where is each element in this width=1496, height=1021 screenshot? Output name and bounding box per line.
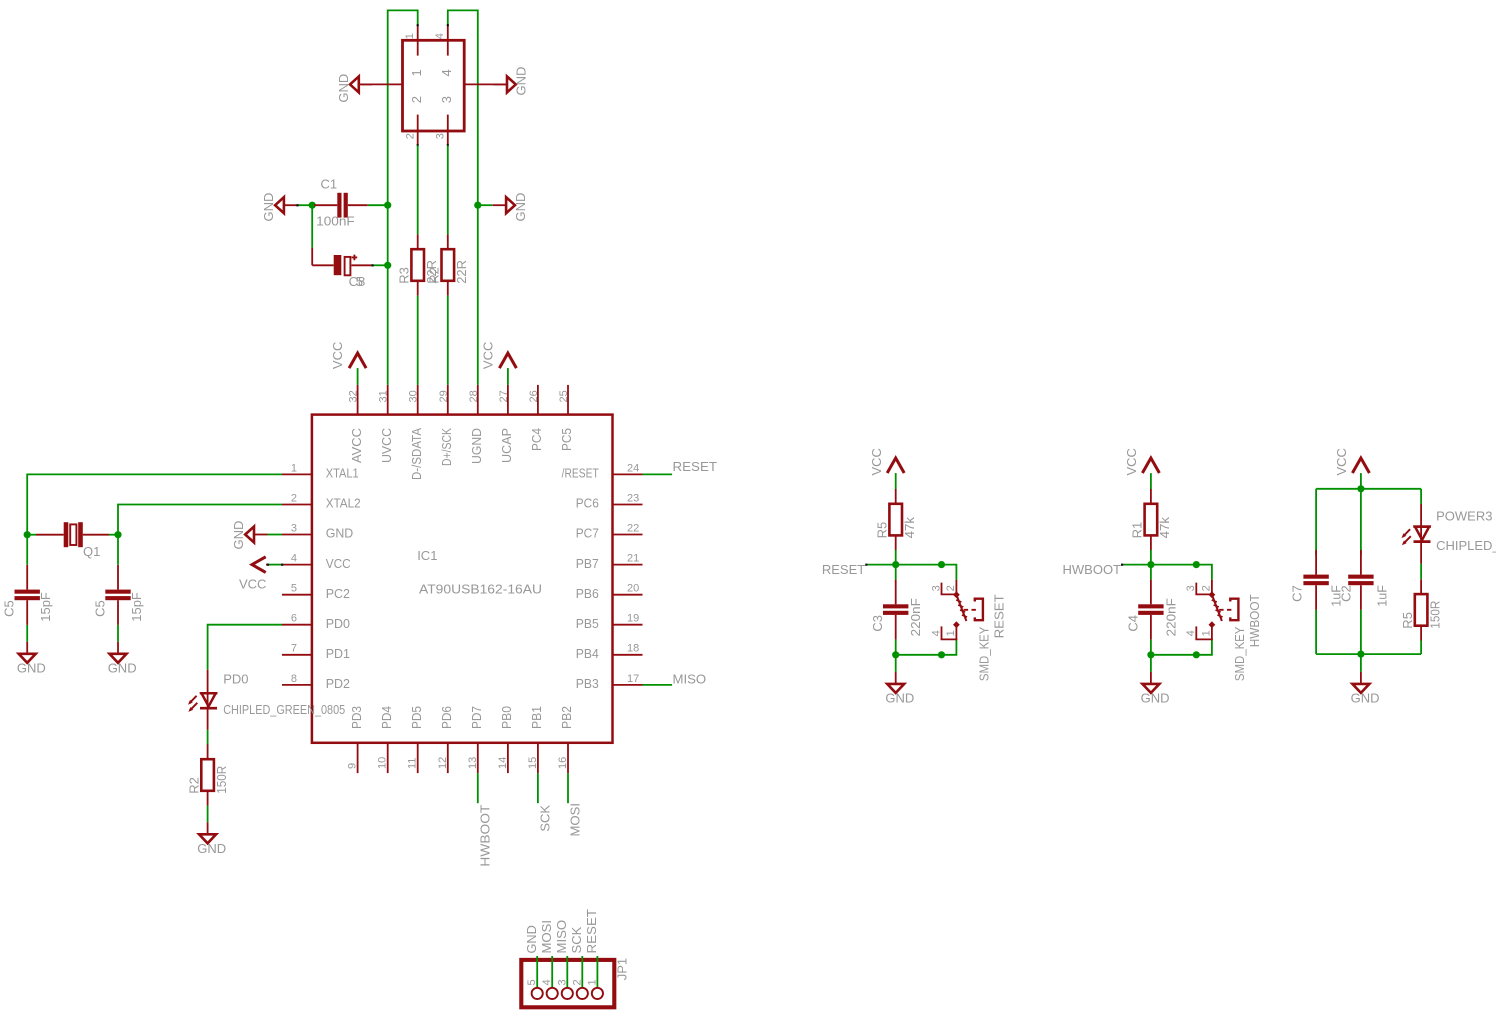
svg-text:GND: GND — [1351, 690, 1380, 705]
jp1 pin 1 wire net RESET — [596, 956, 598, 988]
junction node VCC power — [1357, 485, 1364, 492]
svg-text:4: 4 — [434, 33, 446, 39]
junction node at cap bottom — [892, 651, 899, 658]
ic pin 11 PD5 — [417, 743, 419, 773]
ic pin 13 PD7 — [477, 743, 479, 773]
svg-text:SCK: SCK — [569, 926, 584, 953]
wire net HWBOOT — [1122, 564, 1151, 566]
svg-text:UCAP: UCAP — [499, 428, 514, 463]
wire R5 to bottom rail — [1420, 641, 1422, 655]
led emission arrows — [189, 696, 197, 711]
wire to switch top — [896, 564, 942, 566]
svg-text:24: 24 — [627, 462, 639, 474]
ic IC1 body — [312, 415, 613, 743]
ic pin 31 UVCC — [387, 385, 389, 415]
usb pin 2 — [417, 115, 419, 146]
svg-text:PD4: PD4 — [379, 706, 394, 729]
svg-text:GND: GND — [1141, 690, 1170, 705]
resistor R5 150R power — [1420, 579, 1422, 594]
svg-text:R3: R3 — [396, 267, 411, 284]
svg-text:GND: GND — [885, 690, 914, 705]
svg-text:C1: C1 — [321, 177, 338, 192]
svg-text:AT90USB162-16AU: AT90USB162-16AU — [419, 581, 542, 596]
resistor R2 150R — [207, 744, 209, 759]
wire bottom to switch — [896, 654, 942, 656]
wire cap bottom to row — [1150, 640, 1152, 655]
ic pin 30 D-/SDATA — [417, 385, 419, 415]
pin connection dots — [372, 264, 374, 266]
ground symbol GND below cap — [895, 672, 897, 684]
junction node crystal left — [24, 531, 31, 538]
svg-text:15pF: 15pF — [129, 592, 144, 622]
svg-text:RESET: RESET — [991, 594, 1006, 638]
wire power top rail — [1316, 488, 1421, 490]
svg-text:10: 10 — [377, 757, 389, 769]
svg-text:PD0: PD0 — [223, 672, 248, 687]
jp1 pin 4 wire net MOSI — [551, 956, 553, 988]
wire cap bottom to row — [895, 640, 897, 655]
svg-text:GND: GND — [326, 526, 354, 541]
svg-text:PC4: PC4 — [529, 428, 544, 451]
switch contacts — [1209, 591, 1216, 598]
ic pin 26 PC4 — [537, 385, 539, 415]
svg-text:25: 25 — [558, 390, 570, 402]
svg-text:PB7: PB7 — [576, 556, 599, 571]
svg-text:VCC: VCC — [481, 342, 496, 369]
switch SMD_KEY — [1211, 580, 1213, 595]
ic pin 18 PB4 — [613, 654, 643, 656]
crystal Q1 — [27, 534, 36, 536]
svg-text:SMD_KEY: SMD_KEY — [1232, 626, 1247, 681]
ic pin 15 PB1 — [537, 743, 539, 773]
svg-text:17: 17 — [627, 673, 639, 685]
junction node switch bottom — [938, 651, 945, 658]
svg-text:150R: 150R — [214, 766, 229, 794]
jp1 pin circle 2 — [577, 988, 588, 999]
svg-text:Q1: Q1 — [83, 544, 100, 559]
svg-text:47k: 47k — [1157, 516, 1172, 538]
svg-text:3: 3 — [1185, 585, 1197, 591]
resistor R2 — [447, 234, 449, 249]
junction node switch top — [938, 561, 945, 568]
svg-text:GND: GND — [513, 67, 528, 96]
ic pin 24 /RESET — [613, 473, 643, 475]
svg-text:R2: R2 — [186, 777, 201, 794]
ic pin 28 UGND — [477, 385, 479, 415]
svg-text:3: 3 — [291, 522, 297, 534]
svg-text:CHIPLED_GREEN_0805: CHIPLED_GREEN_0805 — [1436, 538, 1496, 553]
svg-text:UGND: UGND — [469, 428, 484, 464]
svg-text:XTAL1: XTAL1 — [326, 466, 359, 481]
wire down to C7 — [1315, 489, 1317, 555]
wire to power ground — [1360, 654, 1362, 672]
svg-text:PD7: PD7 — [469, 706, 484, 729]
svg-text:SMD_KEY: SMD_KEY — [977, 626, 992, 681]
svg-text:1: 1 — [409, 69, 424, 76]
svg-text:MISO: MISO — [673, 672, 707, 687]
svg-text:GND: GND — [231, 521, 246, 550]
svg-text:GND: GND — [17, 660, 46, 675]
svg-text:4: 4 — [291, 553, 297, 565]
wire USB pin3 to R2 — [447, 145, 449, 234]
svg-text:PC2: PC2 — [326, 586, 350, 601]
svg-text:JP1: JP1 — [615, 958, 630, 980]
svg-text:4: 4 — [930, 630, 942, 636]
svg-text:29: 29 — [438, 390, 450, 402]
svg-text:1uF: 1uF — [1374, 585, 1389, 607]
svg-text:GND: GND — [261, 193, 276, 222]
svg-text:15: 15 — [527, 757, 539, 769]
svg-text:14: 14 — [497, 757, 509, 769]
wire net MISO at IC pin 17 — [643, 684, 673, 686]
svg-text:HWBOOT: HWBOOT — [477, 805, 492, 867]
ground symbol GND at IC pin 3 — [245, 527, 254, 543]
wire bottom to switch — [1151, 654, 1196, 656]
svg-text:R2: R2 — [427, 267, 442, 284]
wire to ground — [895, 655, 897, 672]
svg-text:PD1: PD1 — [326, 646, 350, 661]
svg-text:R1: R1 — [1130, 522, 1145, 539]
wire PD0 to LED — [208, 625, 282, 670]
svg-text:D+/SCK: D+/SCK — [439, 428, 454, 466]
svg-text:12: 12 — [437, 757, 449, 769]
svg-text:26: 26 — [528, 390, 540, 402]
supply symbol VCC at IC pin 32 — [349, 353, 366, 368]
switch button bracket — [1230, 599, 1238, 621]
svg-text:PC6: PC6 — [576, 496, 599, 511]
svg-text:27: 27 — [498, 390, 510, 402]
svg-text:2: 2 — [291, 492, 297, 504]
wire net SCK at IC pin 15 — [537, 773, 539, 803]
svg-text:6: 6 — [291, 613, 297, 625]
wire XTAL2 to crystal — [118, 505, 282, 535]
svg-text:2: 2 — [1201, 585, 1213, 591]
ground symbol GND right of UGND rail — [506, 197, 515, 213]
svg-text:220nF: 220nF — [1163, 598, 1178, 636]
wire net RESET at IC pin 24 — [643, 473, 673, 475]
ic pin 8 PD2 — [282, 684, 312, 686]
switch SMD_KEY — [955, 580, 957, 595]
junction node at C1 left — [309, 202, 316, 209]
wire UVCC rail from USB pin 1 — [388, 10, 418, 385]
wire UGND rail to GND arrow — [478, 204, 493, 206]
svg-text:VCC: VCC — [330, 342, 345, 369]
jp1 pin 5 wire net GND — [536, 956, 538, 988]
ic pin 4 VCC — [282, 564, 312, 566]
svg-text:21: 21 — [627, 553, 639, 565]
ground symbol GND right of USB — [507, 76, 516, 92]
ground symbol GND below R2 — [207, 822, 209, 834]
junction node at cap bottom — [1147, 651, 1154, 658]
led emission arrows power — [1403, 529, 1411, 544]
ic pin 20 PB6 — [613, 594, 643, 596]
svg-text:13: 13 — [467, 757, 479, 769]
wire C2 to bottom rail — [1360, 610, 1362, 654]
ground symbol GND left of USB — [350, 76, 359, 92]
ic pin 17 PB3 — [613, 684, 643, 686]
svg-text:18: 18 — [627, 643, 639, 655]
supply symbol VCC above R1 — [1142, 458, 1159, 473]
wire R1 to net row — [1150, 550, 1152, 565]
wire down to power LED — [1420, 489, 1422, 504]
ic pin 6 PD0 — [282, 624, 312, 626]
switch contacts — [953, 591, 960, 598]
svg-text:4: 4 — [541, 979, 553, 985]
switch actuator dashes — [964, 609, 976, 611]
capacitor C3 220nF — [895, 565, 897, 580]
svg-text:VCC: VCC — [1124, 448, 1139, 475]
supply symbol VCC at IC pin 4 — [252, 557, 266, 573]
switch actuator dashes — [1219, 609, 1231, 611]
ic pin 25 PC5 — [567, 385, 569, 415]
ic pin 21 PB7 — [613, 564, 643, 566]
wire net HWBOOT at IC pin 13 — [477, 773, 479, 803]
svg-text:PB5: PB5 — [576, 616, 599, 631]
junction node power bottom — [1357, 651, 1364, 658]
wire C7 to bottom rail — [1315, 610, 1317, 654]
supply symbol VCC above R5 — [887, 458, 904, 473]
switch button bracket — [975, 599, 983, 621]
svg-text:28: 28 — [468, 390, 480, 402]
junction node switch bottom — [1193, 651, 1200, 658]
capacitor C5 left 15pF — [26, 565, 28, 590]
svg-text:IC1: IC1 — [417, 548, 437, 563]
jp1 pin circle 3 — [562, 988, 573, 999]
jp1 pin 2 wire net SCK — [581, 956, 583, 988]
supply symbol VCC power — [1352, 458, 1369, 473]
svg-text:1: 1 — [1201, 630, 1213, 636]
svg-text:VCC: VCC — [869, 448, 884, 475]
junction node switch top — [1193, 561, 1200, 568]
svg-text:HWBOOT: HWBOOT — [1247, 594, 1262, 647]
junction node at cap top — [1147, 561, 1154, 568]
svg-text:30: 30 — [408, 390, 420, 402]
wire net MOSI at IC pin 16 — [567, 773, 569, 803]
junction node C1 to UVCC rail — [384, 202, 391, 209]
svg-text:1: 1 — [586, 979, 598, 985]
svg-text:23: 23 — [627, 492, 639, 504]
wire net RESET — [866, 564, 896, 566]
jp1 pin circle 1 — [592, 988, 603, 999]
svg-text:15pF: 15pF — [38, 592, 53, 622]
svg-text:C2: C2 — [1338, 585, 1353, 602]
svg-text:R5: R5 — [874, 522, 889, 539]
wire down to C2 — [1360, 489, 1362, 555]
wire R3 to IC pin 30 — [417, 296, 419, 385]
wire LED to R5 — [1420, 564, 1422, 580]
svg-text:C5: C5 — [2, 600, 17, 617]
ic pin 16 PB2 — [567, 743, 569, 773]
svg-text:GND: GND — [108, 660, 137, 675]
svg-text:R5: R5 — [1400, 612, 1415, 629]
switch lever — [957, 596, 967, 621]
ic pin 7 PD1 — [282, 654, 312, 656]
svg-text:GND: GND — [524, 925, 539, 953]
svg-text:D-/SDATA: D-/SDATA — [409, 428, 424, 480]
led POWER3 CHIPLED — [1420, 504, 1422, 542]
capacitor C5 right 15pF — [117, 565, 119, 590]
ic pin 2 XTAL2 — [282, 504, 312, 506]
svg-text:4: 4 — [1185, 630, 1197, 636]
svg-text:22R: 22R — [454, 260, 469, 284]
usb pin 1 — [417, 25, 419, 56]
svg-text:16: 16 — [557, 757, 569, 769]
ic pin 19 PB5 — [613, 624, 643, 626]
svg-text:11: 11 — [407, 758, 419, 769]
svg-text:7: 7 — [291, 643, 297, 655]
wire crystal right to C5 — [117, 535, 119, 565]
svg-text:GND: GND — [336, 74, 351, 103]
ic pin 12 PD6 — [447, 743, 449, 773]
wire C5 right to ground — [117, 625, 119, 642]
ic pin 23 PC6 — [613, 504, 643, 506]
ic pin 3 GND — [282, 534, 312, 536]
svg-text:GND: GND — [197, 841, 226, 856]
svg-text:9: 9 — [347, 763, 359, 769]
capacitor C4 220nF — [1150, 565, 1152, 580]
wire C5 left to ground — [26, 625, 28, 642]
ground symbol GND below left C5 — [26, 642, 28, 654]
ic pin 10 PD4 — [387, 743, 389, 773]
ic pin 5 PC2 — [282, 594, 312, 596]
junction node UGND rail — [474, 202, 481, 209]
svg-text:MOSI: MOSI — [568, 803, 583, 837]
svg-text:PD6: PD6 — [439, 706, 454, 729]
ground symbol GND power — [1360, 672, 1362, 684]
svg-text:C7: C7 — [1290, 585, 1305, 602]
svg-text:3: 3 — [439, 96, 454, 103]
svg-text:3: 3 — [930, 585, 942, 591]
junction node C8 to UVCC rail — [384, 262, 391, 269]
svg-text:150R: 150R — [1427, 601, 1442, 629]
svg-text:PB4: PB4 — [576, 646, 599, 661]
ic pin 32 AVCC — [357, 385, 359, 415]
wire power bottom rail — [1316, 653, 1421, 655]
svg-text:AVCC: AVCC — [349, 428, 364, 463]
svg-text:PB1: PB1 — [529, 706, 544, 729]
usb pin 6 shield right — [464, 83, 506, 85]
ic pin 27 UCAP — [507, 385, 509, 415]
svg-text:20: 20 — [627, 583, 639, 595]
ic pin 1 XTAL1 — [282, 473, 312, 475]
ground symbol GND left of C1 — [275, 197, 284, 213]
usb pin 4 — [447, 25, 449, 56]
svg-text:1: 1 — [404, 33, 416, 39]
svg-text:22: 22 — [627, 522, 639, 534]
svg-text:PD5: PD5 — [409, 706, 424, 729]
wire down to C8 row — [311, 205, 313, 248]
svg-text:1: 1 — [945, 630, 957, 636]
svg-text:PC5: PC5 — [559, 428, 574, 451]
svg-text:PD2: PD2 — [326, 676, 350, 691]
svg-text:C5: C5 — [93, 600, 108, 617]
svg-text:RESET: RESET — [673, 459, 718, 474]
svg-text:VCC: VCC — [326, 556, 351, 571]
svg-text:5: 5 — [291, 583, 297, 595]
svg-text:PB6: PB6 — [576, 586, 599, 601]
wire GND to C1 — [297, 204, 312, 206]
wire R2 to IC pin 29 — [447, 296, 449, 385]
jp1 pin 3 wire net MISO — [566, 956, 568, 988]
svg-text:C3: C3 — [870, 615, 885, 632]
svg-text:47k: 47k — [902, 516, 917, 538]
svg-text:VCC: VCC — [239, 576, 266, 591]
svg-text:RESET: RESET — [822, 562, 865, 577]
wire crystal left to C5 — [26, 535, 28, 565]
switch lever — [1212, 596, 1222, 621]
svg-text:19: 19 — [627, 613, 639, 625]
svg-text:2: 2 — [945, 585, 957, 591]
svg-text:PB3: PB3 — [576, 676, 599, 691]
wire LED to R2 — [207, 730, 209, 745]
svg-text:2: 2 — [571, 979, 583, 985]
ic pin 9 PD3 — [357, 743, 359, 773]
svg-text:XTAL2: XTAL2 — [326, 496, 361, 511]
svg-text:UVCC: UVCC — [379, 428, 394, 463]
svg-text:3: 3 — [435, 133, 447, 139]
ic pin 22 PC7 — [613, 534, 643, 536]
wire XTAL1 to crystal — [27, 474, 282, 534]
svg-text:PB0: PB0 — [499, 706, 514, 729]
ground symbol GND below cap — [1150, 672, 1152, 684]
capacitor C7 1uF — [1315, 550, 1317, 575]
usb pin 3 — [447, 115, 449, 146]
resistor R3 — [417, 234, 419, 249]
svg-text:2: 2 — [405, 133, 417, 139]
usb pin 5 shield left — [361, 83, 403, 85]
capacitor C2 1uF — [1360, 550, 1362, 575]
connector JP1 body — [521, 960, 614, 1007]
junction node crystal right — [114, 531, 121, 538]
svg-text:MOSI: MOSI — [539, 920, 554, 954]
svg-text:5: 5 — [356, 274, 363, 289]
ic pin 14 PB0 — [507, 743, 509, 773]
wire USB pin2 to R3 — [417, 145, 419, 234]
resistor R5 47k — [895, 489, 897, 504]
svg-text:POWER3: POWER3 — [1436, 508, 1492, 523]
svg-text:220nF: 220nF — [908, 598, 923, 636]
svg-text:SCK: SCK — [537, 805, 552, 832]
svg-text:8: 8 — [291, 673, 297, 685]
svg-text:4: 4 — [439, 69, 454, 76]
svg-text:PC7: PC7 — [576, 526, 599, 541]
junction node at cap top — [892, 561, 899, 568]
jp1 pin circle 4 — [547, 988, 558, 999]
svg-text:3: 3 — [556, 979, 568, 985]
svg-text:VCC: VCC — [1334, 448, 1349, 475]
svg-text:HWBOOT: HWBOOT — [1063, 562, 1122, 577]
svg-text:32: 32 — [348, 390, 360, 402]
capacitor C8 polarized — [312, 264, 334, 266]
svg-text:100nF: 100nF — [316, 213, 355, 228]
svg-text:2: 2 — [409, 96, 424, 103]
wire R2 to ground — [207, 806, 209, 823]
svg-text:31: 31 — [378, 390, 390, 402]
svg-text:5: 5 — [526, 979, 538, 985]
svg-text:CHIPLED_GREEN_0805: CHIPLED_GREEN_0805 — [223, 702, 345, 717]
svg-text:RESET: RESET — [584, 909, 599, 954]
svg-text:PD0: PD0 — [326, 616, 350, 631]
wire to switch top — [1151, 564, 1196, 566]
wire R5 to net row — [895, 550, 897, 565]
wire UGND rail from USB pin 4 — [448, 10, 478, 385]
ic pin 29 D+/SCK — [447, 385, 449, 415]
wire to ground — [1150, 655, 1152, 672]
usb connector X1 body — [403, 40, 465, 131]
resistor R1 47k — [1150, 489, 1152, 504]
svg-text:GND: GND — [513, 193, 528, 222]
supply symbol VCC at IC pin 27 — [499, 353, 516, 368]
